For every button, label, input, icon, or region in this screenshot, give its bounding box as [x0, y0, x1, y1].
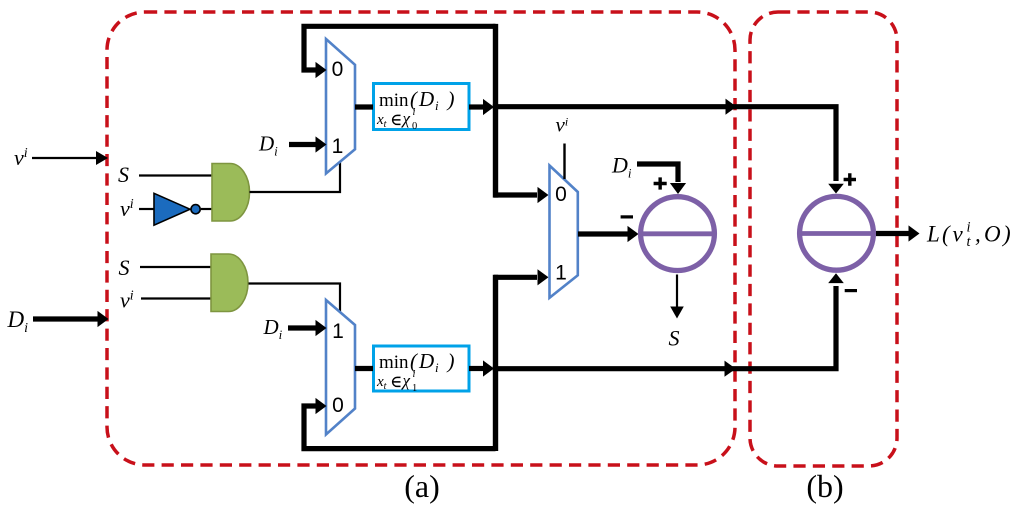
wire: v^i to AND gate G2	[141, 297, 212, 299]
label (a)	[404, 468, 440, 504]
svg-text:S: S	[118, 162, 129, 187]
adder A1 (subtractor circle)	[640, 197, 715, 271]
svg-text:χ: χ	[401, 109, 411, 128]
node label v^i (mux M3 select)	[556, 113, 569, 137]
sign minus (adder A2 bottom input)	[845, 289, 857, 292]
sign minus (adder A1 left input)	[621, 215, 633, 218]
svg-text:(a): (a)	[404, 468, 440, 504]
AND gate G2	[211, 254, 248, 312]
svg-text:0: 0	[332, 58, 344, 81]
wire: feedback from bus to mux M2 input 0	[304, 398, 496, 449]
node label L(v_t^i, O) output	[926, 220, 1011, 251]
svg-text:i: i	[413, 107, 416, 118]
node label v^i (AND gate G2 input)	[120, 288, 134, 313]
node label S (AND gate G1 input)	[118, 162, 129, 187]
wire: input D_i thick arrow into box (a)	[33, 311, 109, 327]
block B1 min(D_i) over x_t in X_0	[374, 84, 470, 133]
svg-text:(b): (b)	[806, 468, 843, 504]
svg-text:0: 0	[412, 121, 417, 132]
wire: bottom bus vertical	[493, 275, 498, 451]
wire: block B1 output arrow to bus junction	[469, 99, 494, 115]
svg-text:1: 1	[332, 135, 344, 158]
adder A2 (subtractor circle)	[799, 196, 874, 270]
svg-text:i: i	[413, 369, 416, 380]
svg-text:vi: vi	[14, 145, 28, 170]
inverter U1	[154, 193, 200, 225]
svg-text:1: 1	[412, 383, 417, 394]
svg-text:min: min	[379, 352, 409, 373]
dashed box (a)	[107, 12, 735, 465]
svg-text:(Di): (Di)	[410, 349, 455, 375]
label (b)	[806, 468, 843, 504]
svg-text:0: 0	[332, 394, 344, 417]
svg-text:vi: vi	[556, 113, 569, 137]
sign plus (adder A2 top input)	[844, 173, 856, 185]
wire: feedback from bus to mux M1 input 0	[304, 26, 496, 78]
node label S (AND gate G2 input)	[119, 255, 130, 280]
mux M3 (center)	[550, 166, 578, 298]
wire: adder A2 output arrow to L	[876, 225, 920, 241]
svg-text:Di: Di	[611, 153, 632, 181]
wire: S to AND gate G1	[139, 174, 213, 176]
svg-text:Di: Di	[258, 132, 278, 159]
sign plus (adder A1 top input)	[654, 177, 667, 189]
wire: bottom bus to mux M3 input 1	[494, 269, 549, 285]
AND gate G1	[212, 164, 250, 222]
node label D_i (left input)	[7, 307, 29, 336]
wire: D_i thick arrow to mux M2 input 1	[288, 320, 327, 336]
node label v^i (inverter U1 input)	[120, 196, 134, 221]
svg-text:(Di): (Di)	[410, 87, 455, 113]
node label D_i (mux M2 input 1)	[263, 315, 283, 342]
mux M2 (bottom)	[326, 300, 355, 435]
wire: top bus to mux M3 input 0	[494, 187, 549, 203]
wire: AND gate G2 output to mux M2 select	[249, 284, 341, 314]
wire: top long wire to adder A2 plus input	[493, 99, 844, 194]
wire: mux M2 output to block B2	[355, 366, 373, 371]
wire: top bus vertical	[493, 24, 498, 198]
svg-text:L(vit,O): L(vit,O)	[926, 220, 1011, 251]
mux M1 (top)	[326, 39, 355, 174]
svg-text:S: S	[119, 255, 130, 280]
wire: adder A1 output down to S	[670, 275, 684, 319]
svg-text:Di: Di	[7, 307, 29, 336]
wire: S to AND gate G2	[140, 266, 212, 268]
wire: AND gate G1 output to mux M1 select	[250, 161, 341, 192]
wire: v^i select to mux M3	[563, 144, 565, 180]
wire: block B2 output arrow to bus junction	[469, 360, 494, 376]
node label D_i (mux M1 input 1)	[258, 132, 278, 159]
wire: v^i to inverter U1	[139, 208, 155, 210]
svg-text:vi: vi	[120, 288, 134, 313]
svg-text:S: S	[669, 326, 680, 351]
wire: input v_i arrow into box (a)	[32, 151, 108, 165]
svg-text:vi: vi	[120, 196, 134, 221]
wire: inverter U1 output to AND gate G1	[201, 208, 213, 210]
svg-text:χ: χ	[401, 371, 411, 390]
wire: D_i to adder A1 plus input	[637, 164, 686, 194]
svg-text:1: 1	[332, 320, 344, 343]
svg-text:1: 1	[555, 262, 567, 285]
node label D_i (adder A1 top input)	[611, 153, 632, 181]
block B2 min(D_i) over x_t in X_1	[374, 346, 470, 394]
wire: bottom long wire to adder A2 minus input	[493, 273, 844, 377]
node label S (adder A1 output)	[669, 326, 680, 351]
wire: mux M1 output to block B1	[355, 104, 373, 109]
wire: mux M3 output to adder A1	[578, 226, 639, 242]
svg-text:0: 0	[555, 183, 567, 206]
dashed box (b)	[750, 12, 897, 466]
wire: D_i thick arrow to mux M1 input 1	[289, 136, 327, 152]
svg-text:min: min	[379, 90, 409, 111]
node label v^i (left input)	[14, 145, 28, 170]
svg-text:Di: Di	[263, 315, 283, 342]
